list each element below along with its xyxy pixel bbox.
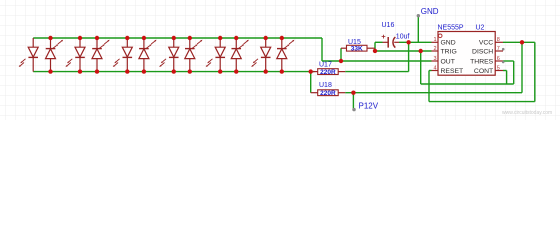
svg-text:U16: U16 xyxy=(382,22,395,29)
LED D8 (cathode up) xyxy=(185,38,203,72)
resistor U18 body/value 220R xyxy=(318,90,339,97)
svg-text:4: 4 xyxy=(433,65,436,71)
LED D12 (cathode up) xyxy=(277,38,295,72)
svg-text:5: 5 xyxy=(497,65,500,71)
svg-text:U15: U15 xyxy=(348,39,361,46)
LED D7 (cathode down) xyxy=(159,38,179,72)
svg-text:3: 3 xyxy=(433,56,436,62)
label U15 xyxy=(348,39,361,46)
wire bottom rail to U18 drop xyxy=(310,72,312,93)
wire THRES/CONT bottom xyxy=(421,83,514,85)
wire GND label drop xyxy=(417,16,419,43)
wire bottom LED rail xyxy=(33,71,314,73)
svg-text:NE555P: NE555P xyxy=(438,25,464,32)
wire VCC riser to pin 8 xyxy=(521,42,523,92)
svg-text:U18: U18 xyxy=(319,82,332,89)
LED D3 (cathode down) xyxy=(66,38,86,72)
LED D11 (cathode down) xyxy=(251,38,271,72)
junction dots on bottom rail xyxy=(48,69,313,73)
LED D9 (cathode down) xyxy=(206,38,226,72)
svg-text:+: + xyxy=(381,32,386,41)
label U17 xyxy=(319,61,332,68)
svg-text:VCC: VCC xyxy=(479,40,493,47)
wire U17 right to GND riser xyxy=(345,71,408,73)
wire cap left stub xyxy=(375,41,383,43)
svg-text:THRES: THRES xyxy=(470,58,494,65)
svg-text:1: 1 xyxy=(433,37,436,43)
pin1 marker circle xyxy=(438,34,442,38)
junction OUT/U15 xyxy=(339,59,343,63)
wire RESET loop right drop xyxy=(534,42,536,101)
svg-text:P12V: P12V xyxy=(359,101,379,110)
label U18 xyxy=(319,82,332,89)
svg-text:2: 2 xyxy=(433,46,436,52)
wire THRES to TRIG riser xyxy=(420,51,422,84)
wire RESET loop left riser xyxy=(428,71,430,102)
LED D10 (cathode up) xyxy=(231,38,249,72)
wire OUT rail drop xyxy=(321,38,323,61)
resistor U15 left lead xyxy=(341,47,347,49)
wire THRES pin 6 out xyxy=(503,60,514,62)
svg-text:TRIG: TRIG xyxy=(441,48,457,55)
resistor U15 body/value 33K xyxy=(347,45,368,52)
junction VCC pin8 xyxy=(520,40,524,44)
wire P12V flag stub xyxy=(352,93,354,110)
LED D1 (cathode down) xyxy=(19,38,39,72)
wire U15 left riser xyxy=(340,48,342,61)
svg-text:RESET: RESET xyxy=(441,68,464,75)
wire OUT to pin 3 xyxy=(322,60,432,62)
resistor U15 right lead xyxy=(367,47,375,49)
resistor U17 right lead xyxy=(338,71,345,73)
svg-text:7: 7 xyxy=(497,46,500,52)
resistor U18 left lead xyxy=(311,92,318,94)
wire CONT pin 5 out xyxy=(503,70,507,72)
unconnected pin markers xyxy=(502,48,505,63)
LED D4 (cathode up) xyxy=(92,38,110,72)
svg-text:33K: 33K xyxy=(351,46,363,53)
wire THRES drop xyxy=(513,61,515,84)
LED D5 (cathode down) xyxy=(113,38,133,72)
wire TRIG node riser (U15/C1) xyxy=(374,42,376,51)
svg-text:GND: GND xyxy=(441,40,456,47)
wire pin 8 out xyxy=(503,41,535,43)
label NE555P xyxy=(438,25,464,32)
svg-text:U17: U17 xyxy=(319,61,332,68)
svg-text:8: 8 xyxy=(497,37,500,43)
wire cap right to pin 1 xyxy=(399,41,432,43)
svg-text:220R: 220R xyxy=(320,90,336,97)
svg-text:220R: 220R xyxy=(320,69,336,76)
net label GND xyxy=(417,7,439,17)
svg-text:U2: U2 xyxy=(476,25,485,32)
svg-text:DISCH: DISCH xyxy=(472,48,493,55)
IC pin numbers xyxy=(433,37,499,71)
label U2 xyxy=(476,25,485,32)
junction dots on top rail xyxy=(48,36,284,40)
watermark xyxy=(502,110,552,116)
svg-text:CONT: CONT xyxy=(474,68,493,75)
wire CONT drop xyxy=(506,71,508,85)
LED D6 (cathode up) xyxy=(139,38,157,72)
svg-text:6: 6 xyxy=(497,56,500,62)
junction P12V tap xyxy=(351,91,355,95)
junction cap/GND/U17 xyxy=(406,40,410,44)
value 10uf xyxy=(396,33,410,40)
svg-text:OUT: OUT xyxy=(441,58,455,65)
LED D2 (cathode up) xyxy=(46,38,64,72)
wire RESET pin 4 xyxy=(429,70,432,72)
IC pin names xyxy=(441,40,494,75)
wire top LED rail (OUT net) xyxy=(33,37,322,39)
resistor U17 left lead xyxy=(313,71,318,73)
resistor U18 right lead xyxy=(338,92,345,94)
wire U17 GND riser xyxy=(408,42,410,71)
svg-text:10uf: 10uf xyxy=(396,33,410,40)
IC pin stubs xyxy=(432,42,504,70)
capacitor U16 polarized xyxy=(381,32,399,47)
label U16 xyxy=(382,22,395,29)
wire RESET loop bottom xyxy=(429,101,535,103)
net flag P12V xyxy=(352,101,378,111)
svg-text:GND: GND xyxy=(421,7,439,16)
resistor U17 body/value 220R xyxy=(318,69,339,76)
svg-text:www.circuitstoday.com: www.circuitstoday.com xyxy=(502,110,552,116)
IC U2 NE555P body xyxy=(438,32,495,76)
junction U15/TRIG riser xyxy=(373,49,377,53)
wire TRIG to pin 2 xyxy=(375,50,432,52)
junction TRIG/THRES xyxy=(419,49,423,53)
wire VCC rail P12V xyxy=(345,92,522,94)
